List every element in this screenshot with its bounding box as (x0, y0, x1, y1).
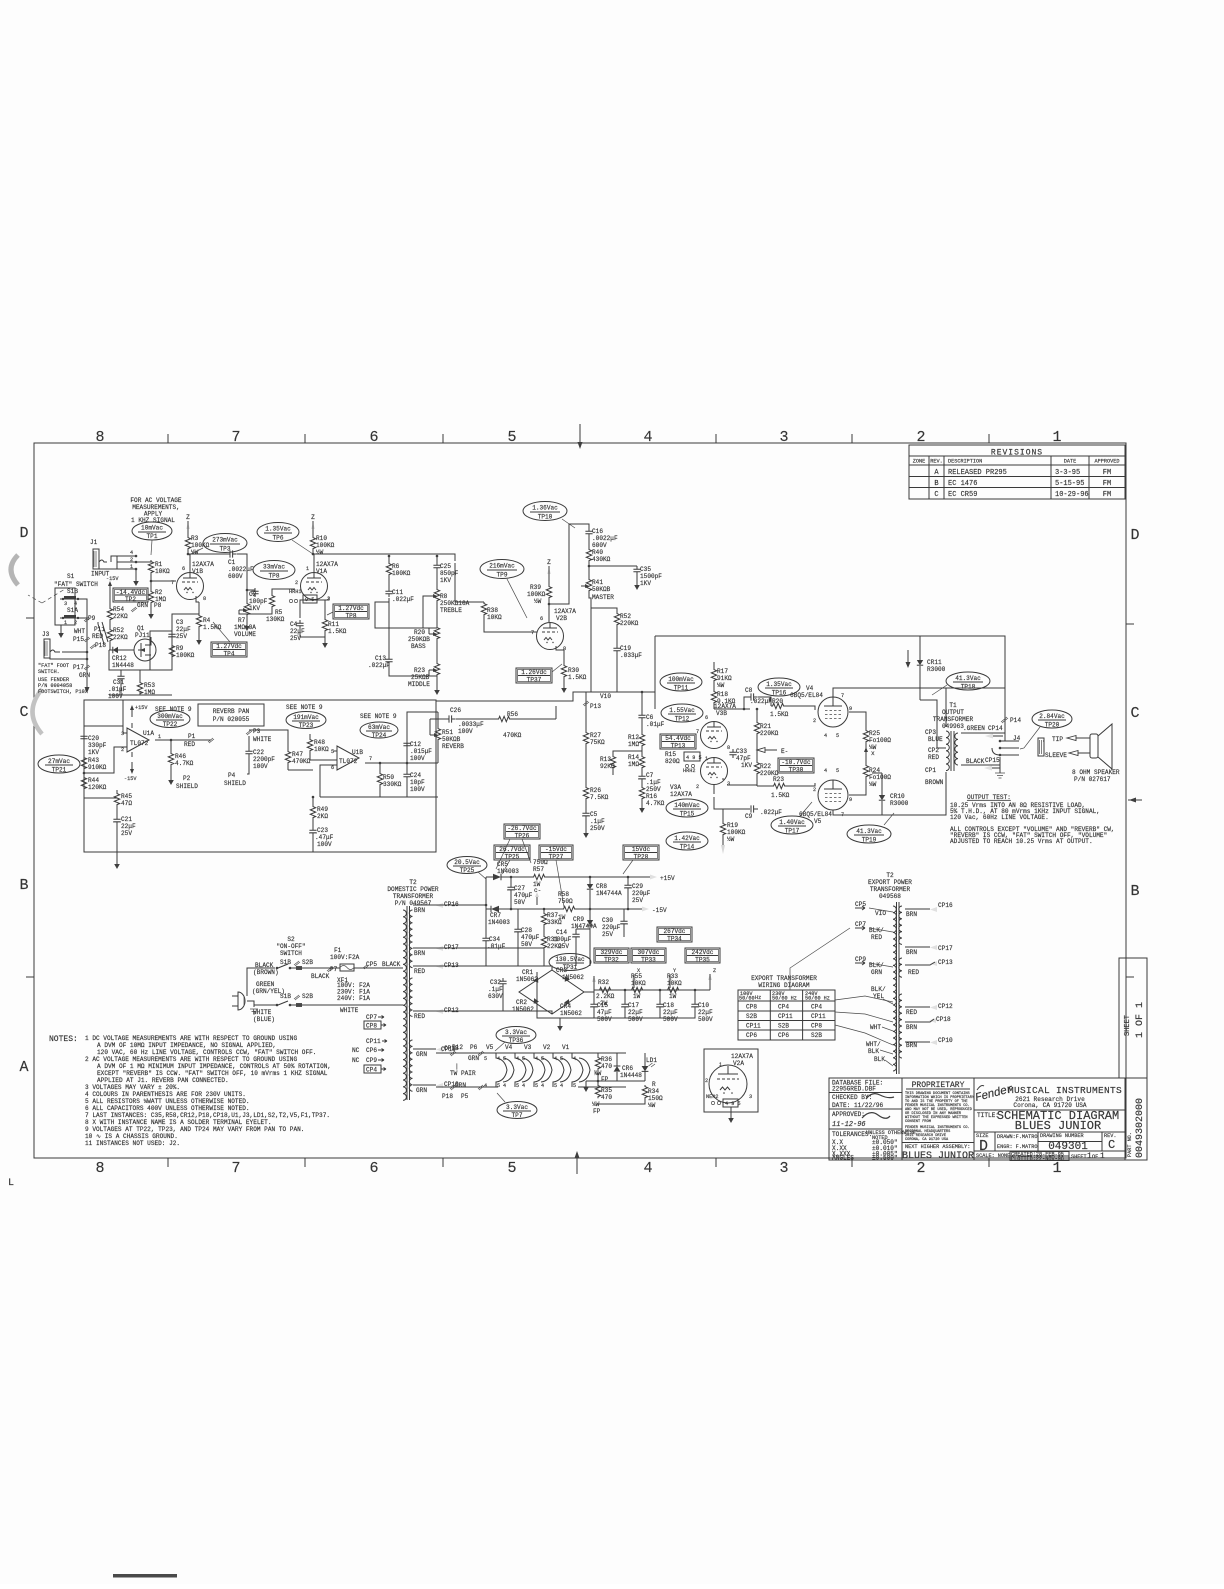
testpoint TP27 box -15Vdc (539, 845, 573, 861)
col3 top: logo + address (974, 1083, 1015, 1105)
V4 plate to OT (833, 688, 946, 727)
R52 220K (591, 608, 617, 612)
svg-text:50V: 50V (514, 899, 525, 906)
svg-text:TP15: TP15 (680, 811, 695, 818)
export secondary bumps (899, 906, 902, 944)
svg-text:BRN: BRN (906, 911, 917, 918)
svg-text:2: 2 (121, 747, 124, 753)
svg-text:TP33: TP33 (641, 957, 656, 964)
testpoint TP16 (758, 678, 800, 697)
svg-text:TP12: TP12 (675, 716, 690, 723)
svg-text:100V: 100V (108, 693, 123, 700)
svg-text:11-12-96: 11-12-96 (832, 1121, 866, 1129)
op-amp U1A TL072 (127, 728, 149, 752)
svg-text:3: 3 (727, 781, 730, 787)
testpoint TP25 box 26.7Vdc (494, 845, 530, 861)
svg-text:41.3Vac: 41.3Vac (856, 828, 882, 835)
bridge rectifier CR1-CR4 (519, 970, 584, 1014)
cap C17 22uF 500V (624, 990, 626, 1001)
plate node to C16 (549, 524, 589, 604)
svg-text:7: 7 (531, 630, 534, 636)
svg-text:R49: R49 (317, 806, 328, 813)
svg-text:1.26Vdc: 1.26Vdc (521, 669, 547, 676)
svg-text:1.35Vac: 1.35Vac (265, 526, 291, 533)
svg-text:TP9: TP9 (497, 572, 508, 579)
svg-text:SEE NOTE 9: SEE NOTE 9 (360, 713, 397, 720)
svg-text:C35: C35 (640, 566, 651, 573)
svg-text:S2: S2 (287, 936, 295, 943)
svg-text:0049302000: 0049302000 (1135, 1098, 1146, 1158)
svg-text:SWITCH: SWITCH (280, 950, 302, 957)
svg-text:7: 7 (231, 429, 240, 446)
svg-text:R50: R50 (383, 774, 394, 781)
svg-text:C10: C10 (698, 1002, 709, 1009)
svg-text:100V: 100V (317, 841, 332, 848)
svg-text:EXCEPT "REVERB" IS CCW. "FAT": EXCEPT "REVERB" IS CCW. "FAT" SWITCH OFF… (97, 1070, 328, 1077)
svg-text:CP3: CP3 (925, 729, 936, 736)
svg-text:TRANSFORMER: TRANSFORMER (393, 893, 434, 900)
svg-text:C2: C2 (249, 591, 257, 598)
resistor R36 470 (597, 1053, 599, 1056)
svg-text:CP8: CP8 (746, 1004, 757, 1011)
svg-text:BASS: BASS (411, 643, 426, 650)
svg-text:A DVM OF 10MΩ INPUT IMPEDANCE,: A DVM OF 10MΩ INPUT IMPEDANCE, NO SIGNAL… (97, 1042, 276, 1049)
heater bottom rail (436, 1086, 626, 1088)
svg-text:CP8: CP8 (366, 1023, 377, 1030)
resistor R47 470K (249, 730, 288, 750)
wire C20 to U1A +in (84, 700, 123, 733)
secondary tap RED CP13 (905, 962, 935, 965)
svg-text:100pF: 100pF (249, 598, 268, 605)
svg-text:CR2: CR2 (516, 999, 527, 1006)
svg-text:1.5KΩ: 1.5KΩ (568, 674, 587, 681)
secondary tap CP10 (413, 1084, 436, 1086)
svg-text:B: B (1130, 883, 1139, 900)
volume pot R7 1M (246, 589, 249, 592)
resistor R22 220K (756, 735, 758, 761)
svg-text:P5: P5 (461, 1093, 469, 1100)
zener CR8 1N4744A (589, 877, 591, 884)
svg-text:CR1: CR1 (522, 969, 533, 976)
svg-text:U1A: U1A (143, 730, 154, 737)
svg-text:47pF: 47pF (736, 755, 751, 762)
testpoint TP37 box (516, 668, 552, 684)
svg-text:R14: R14 (628, 754, 639, 761)
testpoint TP31 oval 130.5Vac (549, 954, 591, 972)
heater box 495 (684, 752, 700, 761)
svg-text:3-3-95: 3-3-95 (1055, 469, 1080, 477)
svg-text:TP10: TP10 (538, 514, 553, 521)
resistor R43 910K (83, 742, 85, 756)
svg-text:V2: V2 (543, 1044, 551, 1051)
cap C35 1500pF 1KV (633, 566, 640, 575)
resistor R31 22K (543, 926, 545, 935)
svg-text:ENGR: F.MATRO: ENGR: F.MATRO (997, 1144, 1037, 1150)
svg-text:BLUES JUNIOR: BLUES JUNIOR (1015, 1119, 1101, 1133)
resistor R38 10K (481, 602, 486, 616)
size/drawn/number/rev row (974, 1132, 1125, 1151)
svg-text:1N5062: 1N5062 (512, 1006, 534, 1013)
svg-text:.01μF: .01μF (108, 686, 127, 693)
svg-text:R15: R15 (665, 751, 676, 758)
svg-text:R17: R17 (717, 668, 728, 675)
resistor R16 4.7K (641, 782, 643, 786)
svg-text:630V: 630V (488, 993, 503, 1000)
resistor R26 7.5K (585, 745, 587, 786)
svg-text:LD1: LD1 (646, 1057, 657, 1064)
svg-text:TP2: TP2 (125, 596, 136, 603)
svg-text:TREBLE: TREBLE (440, 607, 462, 614)
svg-text:TP37: TP37 (527, 677, 542, 684)
secondary tap CP18 (413, 1048, 436, 1050)
svg-text:15Vdc: 15Vdc (632, 846, 651, 853)
svg-text:T2: T2 (886, 872, 894, 879)
wire C1 to volume (237, 554, 247, 590)
transformer T2 primary coil (403, 910, 406, 1100)
svg-text:1MΩ: 1MΩ (144, 689, 155, 696)
speaker (1090, 734, 1098, 758)
svg-text:1KV: 1KV (640, 580, 651, 587)
svg-text:10KΩ: 10KΩ (487, 614, 502, 621)
svg-text:P/N 027617: P/N 027617 (1074, 776, 1111, 783)
svg-text:R39: R39 (530, 584, 541, 591)
B+ rail (594, 989, 710, 991)
svg-text:.015μF: .015μF (410, 748, 432, 755)
svg-text:FOOTSWITCH, P10X: FOOTSWITCH, P10X (38, 689, 89, 695)
-15V arrow below U1A (131, 762, 133, 769)
svg-text:5: 5 (507, 1160, 516, 1177)
wire U1A -in to R43/R44 node (84, 747, 123, 773)
testpoint TP33 box 307Vdc (631, 948, 666, 964)
cap C8 .022uF (714, 708, 750, 710)
svg-text:RED: RED (414, 968, 425, 975)
svg-text:P18: P18 (95, 642, 106, 649)
svg-text:WHT/: WHT/ (866, 1041, 881, 1048)
svg-text:10 ∿ IS A CHASSIS GROUND.: 10 ∿ IS A CHASSIS GROUND. (85, 1133, 178, 1140)
svg-text:1: 1 (705, 756, 708, 762)
svg-text:R5: R5 (275, 609, 283, 616)
zone ticks sides (26, 618, 1134, 977)
svg-text:TITLE:: TITLE: (977, 1112, 999, 1119)
svg-text:TRANSFORMER: TRANSFORMER (933, 716, 974, 723)
power amp enclosure top (655, 636, 1005, 688)
svg-text:CP11: CP11 (778, 1013, 793, 1020)
pentode V5 EL84 (818, 780, 848, 810)
svg-text:27mVac: 27mVac (48, 758, 70, 765)
svg-text:OUTPUT: OUTPUT (942, 709, 964, 716)
svg-text:4: 4 (541, 1083, 544, 1089)
svg-text:4.7KΩ: 4.7KΩ (175, 760, 194, 767)
svg-text:P1: P1 (188, 733, 196, 740)
svg-text:GRN: GRN (468, 1055, 479, 1062)
svg-text:CORONA, CA 91720 USA: CORONA, CA 91720 USA (905, 1138, 949, 1142)
svg-text:9: 9 (849, 797, 852, 803)
+15V arrow above U1A (131, 710, 133, 717)
svg-text:6: 6 (705, 715, 708, 721)
wire J3 to footswitch node (50, 645, 87, 667)
svg-text:1KV: 1KV (249, 605, 260, 612)
wire wiper to R5 (239, 608, 272, 614)
R9 100K (171, 643, 173, 645)
svg-text:100V: 100V (458, 728, 473, 735)
svg-text:.01μF: .01μF (646, 721, 665, 728)
svg-text:2: 2 (916, 429, 925, 446)
svg-text:R21: R21 (760, 723, 771, 730)
svg-text:GRN: GRN (455, 1082, 466, 1089)
svg-text:130.5Vac: 130.5Vac (555, 956, 585, 963)
svg-text:TP4: TP4 (224, 651, 235, 658)
resistor R19 100K (714, 778, 723, 822)
testpoint TP17 (771, 816, 813, 835)
svg-text:1.27Vdc: 1.27Vdc (338, 605, 364, 612)
cathode C4 R11 (300, 597, 329, 618)
svg-text:CR11: CR11 (927, 659, 942, 666)
resistor R33 10K 1W (666, 987, 680, 992)
svg-text:CP6: CP6 (778, 1032, 789, 1039)
svg-text:V5: V5 (814, 818, 822, 825)
svg-text:CP5: CP5 (366, 961, 377, 968)
testpoint TP25 oval 20.5Vac (447, 857, 487, 875)
resistor R45 47ohm (116, 790, 118, 792)
svg-text:CP11: CP11 (366, 1038, 381, 1045)
wire grid line to V1B pin7 (151, 580, 176, 582)
svg-text:-15V: -15V (652, 907, 667, 914)
cap C12 .015uF 100V (406, 740, 408, 763)
svg-text:PART NO.: PART NO. (1127, 1132, 1133, 1157)
svg-text:WHITE: WHITE (340, 1007, 359, 1014)
transformer T2 secondary bumps (409, 910, 412, 968)
svg-text:BRN: BRN (906, 1042, 917, 1049)
svg-text:R41: R41 (592, 579, 603, 586)
svg-text:R45: R45 (121, 793, 132, 800)
svg-text:TP20: TP20 (1045, 722, 1060, 729)
svg-text:5: 5 (541, 1056, 544, 1062)
svg-text:¼W: ¼W (717, 682, 725, 689)
svg-text:1N5062: 1N5062 (562, 974, 584, 981)
svg-text:R22: R22 (760, 763, 771, 770)
C25 850pF (436, 556, 438, 562)
svg-text:1KV: 1KV (741, 762, 752, 769)
cap C30 220uF 25V (623, 909, 625, 918)
svg-text:11 INSTANCES NOT USED: J2.: 11 INSTANCES NOT USED: J2. (85, 1140, 180, 1147)
transformer T2 core (407, 906, 410, 1100)
resistor R54 22K (109, 592, 111, 607)
svg-text:1: 1 (306, 566, 309, 572)
plug chassis ground (247, 1001, 254, 1007)
svg-text:3.3Vac: 3.3Vac (505, 1029, 527, 1036)
test antenna Z at R10 (311, 514, 315, 535)
svg-text:1KV: 1KV (440, 577, 451, 584)
svg-text:330KΩ: 330KΩ (383, 781, 402, 788)
secondary tap BRN CP17 (905, 946, 930, 948)
svg-text:V4: V4 (806, 685, 814, 692)
svg-text:CP11: CP11 (746, 1023, 761, 1030)
scan artifact arcs left edge (11, 555, 18, 585)
testpoint TP30 box (778, 758, 814, 774)
svg-text:C8: C8 (745, 687, 753, 694)
cap C20 330pF 1KV (83, 700, 85, 733)
svg-text:22μF: 22μF (698, 1009, 713, 1016)
svg-text:20.5Vac: 20.5Vac (454, 859, 480, 866)
svg-text:WHITE: WHITE (253, 736, 272, 743)
svg-text:10pF: 10pF (410, 779, 425, 786)
svg-text:CHECKED BY:: CHECKED BY: (832, 1094, 872, 1101)
svg-text:MASTER: MASTER (592, 594, 614, 601)
resistor R12 1M (641, 721, 643, 733)
svg-text:CR7: CR7 (490, 912, 501, 919)
svg-text:47Ω: 47Ω (121, 800, 132, 807)
heater top rail (436, 1052, 626, 1054)
svg-text:22μF: 22μF (663, 1009, 678, 1016)
svg-text:8: 8 (563, 646, 566, 652)
coupling cap C1 .0022uF 600V (190, 553, 230, 555)
node x arrow (865, 743, 867, 764)
svg-text:1N4003: 1N4003 (488, 919, 510, 926)
svg-text:100V:F2A: 100V:F2A (330, 954, 360, 961)
svg-text:BROWN: BROWN (925, 779, 944, 786)
svg-text:22μF: 22μF (290, 628, 305, 635)
svg-text:R23: R23 (773, 776, 784, 783)
svg-text:C19: C19 (620, 645, 631, 652)
svg-text:1.5KΩ: 1.5KΩ (770, 711, 789, 718)
svg-text:850pF: 850pF (440, 570, 459, 577)
svg-text:U1B: U1B (352, 749, 363, 756)
svg-text:V3B: V3B (716, 710, 727, 717)
svg-text:C22: C22 (253, 749, 264, 756)
svg-text:Q1: Q1 (137, 625, 145, 632)
svg-text:100V: 100V (410, 755, 425, 762)
svg-text:P4: P4 (228, 772, 236, 779)
svg-text:10KΩ: 10KΩ (314, 746, 329, 753)
svg-text:E-: E- (781, 748, 788, 755)
svg-text:150Ω: 150Ω (648, 1095, 663, 1102)
svg-text:V5: V5 (486, 1044, 494, 1051)
svg-text:REV.: REV. (930, 459, 942, 465)
col separators (902, 1078, 974, 1160)
svg-text:TP24: TP24 (372, 732, 387, 739)
svg-text:6: 6 (369, 1160, 378, 1177)
svg-text:FP: FP (601, 1076, 609, 1083)
bass pot R20 250KB (436, 602, 438, 626)
svg-text:NE#2: NE#2 (706, 1094, 718, 1100)
centering arrow bottom (576, 1158, 578, 1174)
svg-text:CP6: CP6 (746, 1032, 757, 1039)
pot R51 50KB REVERB (437, 712, 439, 727)
svg-text:4.7KΩ: 4.7KΩ (646, 800, 665, 807)
svg-text:R3: R3 (191, 535, 199, 542)
svg-text:3: 3 (749, 1094, 752, 1100)
svg-text:1.5KΩ: 1.5KΩ (203, 624, 222, 631)
wire V1B cathode to R4 (196, 596, 199, 602)
svg-text:5: 5 (503, 1056, 506, 1062)
op-amp U1B TL072 (337, 746, 359, 770)
svg-text:P12: P12 (452, 1044, 463, 1051)
B+ node out of bridge (584, 976, 594, 992)
svg-text:S1B: S1B (280, 993, 291, 1000)
svg-text:250V: 250V (646, 786, 661, 793)
svg-text:SCALE: NONE: SCALE: NONE (976, 1153, 1010, 1159)
svg-text:C26: C26 (450, 707, 461, 714)
svg-text:216mVac: 216mVac (489, 563, 515, 570)
testpoint TP26 box -26.7Vdc (496, 839, 531, 869)
svg-text:MUSICAL INSTRUMENTS: MUSICAL INSTRUMENTS (1008, 1085, 1122, 1096)
svg-text:C24: C24 (410, 772, 421, 779)
svg-text:R1: R1 (155, 561, 163, 568)
svg-text:¼W: ¼W (869, 781, 877, 788)
svg-text:R10: R10 (316, 535, 327, 542)
svg-text:.0022μF: .0022μF (228, 566, 254, 573)
svg-text:4: 4 (516, 1056, 519, 1062)
svg-text:-14.4Vdc: -14.4Vdc (116, 589, 146, 596)
svg-text:Z: Z (713, 968, 716, 974)
svg-text:R44: R44 (88, 777, 99, 784)
svg-text:63mVac: 63mVac (368, 724, 390, 731)
svg-text:-15V: -15V (106, 576, 119, 582)
svg-text:C13: C13 (375, 655, 386, 662)
C13 .022uF (388, 598, 390, 656)
svg-text:R11: R11 (328, 621, 339, 628)
svg-text:.1μF: .1μF (646, 779, 661, 786)
svg-text:50/60: 50/60 (739, 996, 755, 1002)
power plug (232, 992, 245, 1010)
svg-text:C3: C3 (176, 619, 184, 626)
svg-text:329Vdc: 329Vdc (601, 949, 623, 956)
svg-text:-15Vdc: -15Vdc (545, 846, 567, 853)
svg-text:22μF: 22μF (121, 823, 136, 830)
cap C21 22uF 25V (116, 806, 118, 816)
border rectangle (34, 443, 1126, 1158)
svg-text:TP17: TP17 (785, 828, 800, 835)
svg-text:1: 1 (719, 1062, 722, 1068)
cap C14 100uF 25V (575, 929, 577, 931)
svg-text:C18: C18 (663, 1002, 674, 1009)
svg-text:.022μF: .022μF (368, 662, 390, 669)
testpoint TP3 (203, 534, 247, 553)
svg-text:OF: OF (1092, 1154, 1098, 1160)
svg-text:9: 9 (849, 706, 852, 712)
svg-text:TP36: TP36 (509, 1037, 524, 1044)
svg-text:2.2KΩ: 2.2KΩ (596, 993, 615, 1000)
svg-text:-15V: -15V (124, 776, 137, 782)
svg-text:J1: J1 (90, 539, 98, 546)
svg-text:2KΩ: 2KΩ (317, 813, 328, 820)
svg-text:TW PAIR: TW PAIR (450, 1070, 476, 1077)
svg-text:C20: C20 (88, 735, 99, 742)
testpoint TP11 (660, 673, 702, 692)
svg-text:5: 5 (484, 1056, 487, 1062)
svg-text:100KΩ: 100KΩ (392, 570, 411, 577)
testpoint TP28 box (623, 845, 659, 861)
svg-text:R3000: R3000 (890, 800, 909, 807)
svg-text:½W: ½W (534, 598, 542, 605)
svg-text:430KΩ: 430KΩ (592, 556, 611, 563)
svg-text:TP11: TP11 (674, 685, 689, 692)
svg-text:TP25: TP25 (505, 854, 520, 861)
svg-text:SHIELD: SHIELD (224, 780, 246, 787)
svg-text:750Ω: 750Ω (558, 898, 573, 905)
svg-text:50KΩB: 50KΩB (442, 736, 461, 743)
svg-text:25V: 25V (558, 943, 569, 950)
svg-text:Fo100Ω: Fo100Ω (869, 737, 891, 744)
cap C27 470uF 50V (510, 877, 512, 884)
svg-text:CP4: CP4 (811, 1004, 822, 1011)
svg-text:4: 4 (824, 768, 827, 774)
resistor R13 92K (613, 751, 642, 755)
svg-text:R48: R48 (314, 739, 325, 746)
svg-text:5: 5 (535, 1083, 538, 1089)
cap C10 22uF 500V (694, 990, 696, 1001)
svg-text:REVISIONS: REVISIONS (991, 449, 1043, 458)
